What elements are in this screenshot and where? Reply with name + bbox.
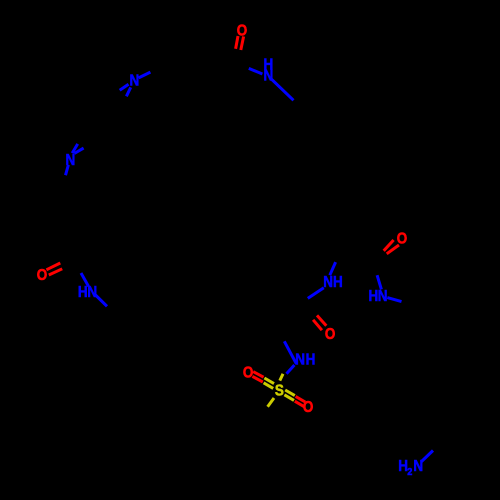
svg-text:O: O [397, 231, 407, 248]
svg-text:N: N [130, 73, 140, 90]
bond N2-C up-right (N half) [139, 72, 151, 78]
bond N2-C down-left steep (N half) [126, 87, 130, 96]
bond C-N5 top (N half) [330, 262, 336, 275]
bond C1=O1 inner line (O half) [236, 36, 238, 49]
bond S=O6 lower line (S half) [284, 395, 294, 401]
bond S=O5 upper line (S half) [264, 378, 274, 384]
bond S=O5 lower line (S half) [264, 383, 274, 389]
bond N8-CH2 (N half) [421, 451, 433, 463]
svg-text:2: 2 [407, 466, 413, 478]
svg-text:O: O [243, 365, 253, 382]
bond S=O5 lower line (O half) [252, 376, 262, 382]
svg-text:N: N [65, 152, 75, 169]
svg-text:O: O [237, 23, 247, 40]
bond N3-C down (N half) [66, 165, 69, 175]
svg-text:N: N [378, 288, 388, 305]
bond S-CH3 (S half) [268, 398, 274, 407]
bond N3-C steep up-right (N half) [72, 144, 78, 153]
svg-text:H: H [306, 352, 316, 369]
bond C3-N6 (N half) [377, 275, 381, 289]
svg-text:H: H [369, 288, 379, 305]
bond N1-CH2 (N half) [272, 79, 294, 100]
bond S=O6 lower line (O half) [295, 401, 305, 407]
bond S=O6 upper line (O half) [296, 396, 306, 402]
svg-text:N: N [323, 274, 333, 291]
svg-text:H: H [333, 274, 343, 291]
bond C1-N1 (N half) [249, 68, 263, 74]
bond N5-C down-left (N half) [308, 288, 324, 299]
bond N4-CH2 (N half) [96, 295, 108, 306]
svg-text:O: O [303, 399, 313, 416]
bond C2-N4 (N half) [81, 273, 89, 286]
svg-text:N: N [264, 68, 274, 85]
svg-text:O: O [325, 326, 335, 343]
bond N3-C shallow up-right (N half) [74, 148, 83, 153]
svg-text:N: N [87, 284, 97, 301]
bond N2-C down-left shallow (N half) [120, 84, 129, 90]
svg-text:O: O [37, 267, 47, 284]
bond C4=O4 inner line (O half) [313, 320, 322, 330]
bond N7-S (N half) [287, 365, 295, 374]
bond N6-CH2 (N half) [387, 298, 401, 302]
bond C-N7 top (N half) [284, 341, 296, 364]
bond S=O5 upper line (O half) [253, 372, 263, 378]
bond S=O6 upper line (S half) [285, 390, 295, 396]
bond C4=O4 main line (O half) [317, 315, 326, 325]
bond C3=O3 main line (O half) [387, 245, 399, 254]
bond C3=O3 inner line (O half) [384, 240, 394, 251]
bond C1=O1 main line (O half) [241, 36, 244, 50]
svg-text:H: H [78, 284, 88, 301]
svg-text:S: S [275, 382, 284, 399]
svg-text:N: N [413, 458, 423, 475]
bond C2=O2 inner line (O half) [49, 269, 62, 275]
svg-text:N: N [295, 352, 305, 369]
bond N7-S (S half) [280, 374, 283, 381]
bond C2=O2 main line (O half) [46, 263, 60, 270]
